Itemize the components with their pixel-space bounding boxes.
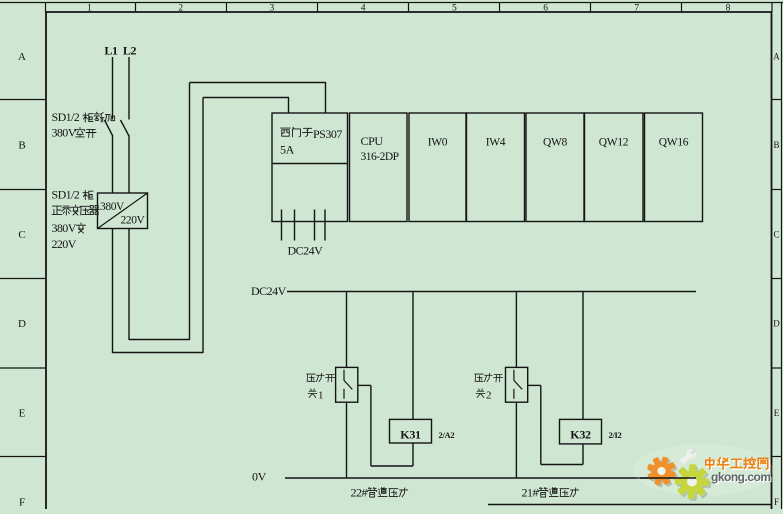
wire top run B bbox=[190, 82, 327, 84]
svg-text:A: A bbox=[773, 52, 780, 62]
pressure switch 2 label bbox=[475, 374, 483, 382]
svg-text:CPU: CPU bbox=[361, 134, 384, 148]
svg-text:380V: 380V bbox=[52, 221, 77, 235]
wire bottom run A bbox=[113, 352, 204, 354]
svg-text:L1: L1 bbox=[104, 44, 118, 58]
wire bottom run B bbox=[129, 339, 190, 341]
svg-text:1: 1 bbox=[318, 390, 324, 402]
wire relay K31 bottom to loop bbox=[412, 443, 414, 466]
svg-text:E: E bbox=[774, 408, 780, 418]
PS307 output pins bbox=[281, 210, 283, 241]
svg-text:C: C bbox=[773, 230, 779, 240]
wire L1 to transformer bbox=[112, 135, 114, 193]
wire switch 1 to 0V bbox=[346, 402, 348, 478]
DC24V bus wire bbox=[287, 291, 696, 293]
wire DC24V to relay K32 bbox=[582, 292, 584, 420]
0V bus wire bbox=[285, 477, 696, 479]
watermark gear shadows bbox=[650, 459, 677, 486]
svg-text:F: F bbox=[19, 497, 25, 509]
wire switch 1 side exit to relay bbox=[358, 384, 371, 386]
svg-text:B: B bbox=[773, 140, 779, 150]
module QW12 box bbox=[585, 113, 644, 222]
wire riser A bbox=[202, 98, 204, 354]
wire drop B into PS307 bbox=[325, 83, 327, 114]
relay coil K32 box bbox=[560, 419, 602, 444]
wire from transformer left down bbox=[112, 229, 114, 354]
svg-text:IW4: IW4 bbox=[486, 137, 506, 149]
wire relay K32 bottom to loop bbox=[582, 444, 584, 465]
0V bus over gears bbox=[640, 477, 696, 479]
watermark soft glow bbox=[633, 444, 773, 496]
svg-text:316-2DP: 316-2DP bbox=[361, 151, 399, 163]
wire drop A into PS307 bbox=[288, 98, 290, 114]
breaker QF pole 1 blade bbox=[105, 120, 113, 136]
svg-text:2: 2 bbox=[486, 390, 492, 402]
svg-text:K32: K32 bbox=[570, 428, 591, 442]
svg-text:21#: 21# bbox=[522, 486, 539, 500]
transformer diagonal bbox=[98, 193, 148, 229]
svg-text:DC24V: DC24V bbox=[251, 284, 287, 298]
svg-text:B: B bbox=[18, 140, 25, 152]
svg-text:2/I2: 2/I2 bbox=[609, 430, 622, 440]
wire L2 to transformer bbox=[128, 135, 130, 193]
svg-text:E: E bbox=[19, 408, 26, 420]
wire from transformer right down bbox=[128, 229, 130, 341]
svg-text:2/A2: 2/A2 bbox=[439, 430, 455, 440]
wire L2 drop bbox=[128, 57, 130, 120]
svg-text:L2: L2 bbox=[123, 44, 137, 58]
drawing frame: top edge line bbox=[0, 2, 783, 4]
main border rectangle (left/top/right) bbox=[45, 12, 47, 510]
pressure switch 2 contact symbol bbox=[513, 370, 515, 381]
pressure switch 1 box bbox=[336, 367, 358, 402]
svg-text:D: D bbox=[18, 318, 26, 330]
watermark wrench icon bbox=[674, 446, 699, 470]
svg-text:220V: 220V bbox=[52, 237, 77, 251]
watermark gear green bbox=[676, 465, 709, 498]
svg-text:QW8: QW8 bbox=[543, 137, 568, 149]
power supply U1 PS307 box bbox=[272, 113, 348, 222]
pressure switch 1 label bbox=[307, 374, 315, 382]
svg-text:D: D bbox=[773, 319, 780, 329]
transformer T1 box bbox=[98, 193, 148, 229]
svg-text:SD1/2: SD1/2 bbox=[52, 110, 80, 124]
wire switch 2 to 0V bbox=[515, 402, 517, 478]
wire riser B bbox=[189, 83, 191, 341]
PS307 internal divider bbox=[272, 163, 348, 165]
wire DC24V to pressure switch 1 bbox=[346, 292, 348, 368]
svg-text:0V: 0V bbox=[252, 470, 267, 484]
wire switch 2 side exit to relay bbox=[528, 384, 541, 386]
svg-text:K31: K31 bbox=[400, 428, 421, 442]
svg-text:F: F bbox=[774, 497, 779, 507]
CPU U2 box bbox=[350, 113, 408, 222]
svg-text:PS307: PS307 bbox=[313, 127, 342, 141]
wire top run A bbox=[203, 97, 289, 99]
row dividers + letters left strip bbox=[0, 99, 46, 101]
module QW8 box bbox=[526, 113, 584, 222]
breaker QF pole 2 blade bbox=[121, 120, 129, 136]
svg-text:IW0: IW0 bbox=[428, 137, 448, 149]
wire DC24V to relay K31 bbox=[412, 292, 414, 420]
module QW16 box bbox=[645, 113, 703, 222]
svg-text:22#: 22# bbox=[351, 486, 368, 500]
svg-text:5A: 5A bbox=[280, 143, 295, 157]
svg-text:220V: 220V bbox=[121, 215, 146, 227]
title block top line at bottom bbox=[488, 504, 772, 506]
pressure switch 1 contact symbol bbox=[343, 370, 345, 381]
watermark gear orange bbox=[648, 457, 675, 484]
wire DC24V to pressure switch 2 bbox=[515, 292, 517, 368]
module IW0 box bbox=[409, 113, 466, 222]
outer right edge line bbox=[781, 3, 783, 510]
wire L1 drop bbox=[112, 57, 114, 120]
svg-text:DC24V: DC24V bbox=[288, 244, 324, 258]
svg-text:380V: 380V bbox=[52, 126, 77, 140]
module IW4 box bbox=[467, 113, 525, 222]
column ticks on top ruler bbox=[45, 3, 47, 13]
svg-text:SD1/2: SD1/2 bbox=[52, 188, 80, 202]
svg-text:A: A bbox=[18, 51, 26, 63]
svg-text:gkong.com: gkong.com bbox=[711, 470, 771, 484]
PS307 label bbox=[281, 128, 291, 136]
relay coil K31 box bbox=[390, 419, 432, 443]
pressure switch 2 box bbox=[506, 367, 528, 402]
svg-text:C: C bbox=[18, 229, 25, 241]
watermark text zhonghua gongkong wang bbox=[707, 459, 715, 470]
svg-text:QW16: QW16 bbox=[659, 137, 689, 149]
svg-text:QW12: QW12 bbox=[599, 137, 629, 149]
row dividers + letters right strip bbox=[772, 99, 782, 101]
svg-text:380V: 380V bbox=[100, 201, 125, 213]
